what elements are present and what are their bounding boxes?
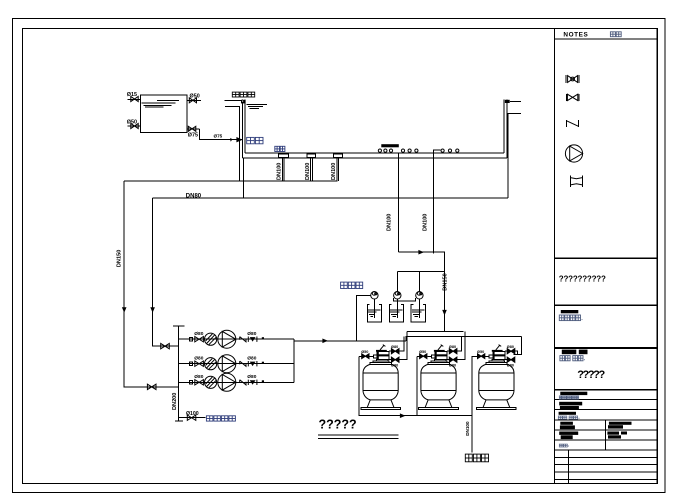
svg-text:DN150: DN150: [443, 273, 449, 290]
municipal water inlet 市政给水: [179, 411, 236, 421]
svg-text:DN100: DN100: [387, 214, 393, 231]
svg-text:Ø80: Ø80: [194, 331, 203, 337]
wire left riser DN150 to pump suction: [116, 181, 178, 389]
pump branch 2 pipe: [179, 363, 294, 365]
svg-text:Ø80: Ø80: [391, 345, 398, 349]
svg-text:DN100: DN100: [331, 163, 337, 180]
svg-text:Ø80: Ø80: [247, 374, 256, 380]
filter F3 backwash valve: [475, 350, 493, 359]
flexible joint branch 1: [189, 338, 192, 341]
svg-text:NOTES: NOTES: [563, 32, 588, 39]
filter F3 inlet valve: [505, 345, 515, 354]
svg-text:?????: ?????: [577, 369, 605, 381]
filter F3 waste pipe: [472, 357, 475, 416]
filter F2 inlet valve: [447, 345, 457, 354]
svg-text:Ø80: Ø80: [247, 331, 256, 337]
swimming pool basin: [232, 92, 509, 158]
valve V1 Ø15 tank inlet: [127, 92, 141, 102]
filter F2 multiport valve: [434, 345, 447, 360]
filter F2 backwash valve: [417, 350, 435, 359]
valve V4 Ø75 tank outlet: [187, 126, 199, 138]
svg-text:Ø75: Ø75: [188, 132, 198, 138]
annotation text: [318, 417, 399, 438]
svg-text:DN100: DN100: [277, 163, 283, 180]
legend gate valve: [566, 94, 578, 101]
pump branch 3 pipe: [179, 381, 294, 383]
circulation pump P3: [218, 373, 236, 391]
svg-text:DN150: DN150: [116, 250, 122, 267]
svg-text:DN100: DN100: [423, 214, 429, 231]
svg-text:?????: ?????: [319, 417, 357, 431]
legend gate valve with flanges: [566, 75, 579, 83]
dosing header pipe: [397, 271, 444, 273]
filter F2 waste pipe: [416, 357, 418, 416]
main drain sumps 主排 with DN100 downpipes: [275, 146, 343, 181]
return risers DN100 and DN150 riser to filters: [387, 150, 449, 332]
pool right overflow stub pipes: [508, 101, 521, 198]
pool drain pipe 泄水口: [225, 101, 244, 198]
legend pump: [565, 145, 582, 162]
wire pipe A main drain header DN150: [124, 180, 338, 182]
svg-text:Ø50: Ø50: [477, 350, 484, 354]
svg-text:Ø50: Ø50: [190, 94, 200, 100]
svg-text:DN200: DN200: [172, 393, 178, 410]
dosing pump 3 feed pipe: [418, 272, 420, 292]
filter feed manifolds: [406, 332, 521, 355]
dosing pump DP1: [371, 292, 378, 299]
flexible joint branch 2: [189, 362, 192, 365]
sand filter battery: [359, 332, 517, 416]
right wall: [503, 99, 505, 152]
pump branch 1 pipe: [179, 338, 294, 340]
svg-text:Ø80: Ø80: [194, 374, 203, 380]
overflow stub pipes (left): [225, 100, 241, 102]
balance water tank: [141, 95, 188, 133]
filter F1 outlet valve: [389, 357, 399, 368]
svg-text:??????????: ??????????: [559, 275, 606, 284]
filter F2 riser pipes: [457, 336, 462, 351]
pool floor return nozzles: [378, 144, 459, 152]
pump suction header DN200: [172, 326, 185, 421]
wire left riser DN80 to pump suction: [150, 198, 178, 349]
svg-text:Ø100: Ø100: [186, 411, 199, 417]
valve V3 Ø50 tank overflow: [187, 94, 201, 103]
svg-text:DN100: DN100: [465, 421, 470, 436]
dosing pump DP2: [394, 292, 401, 299]
dosing pump DP3: [416, 292, 423, 299]
strainer branch 3: [205, 376, 217, 388]
makeup water pipe 补水: [200, 129, 264, 144]
dosing pump 2 feed pipe: [396, 272, 398, 292]
suction valve branch 3: [195, 380, 204, 385]
filter F1 multiport valve: [376, 345, 389, 360]
filter F2 outlet valve: [447, 357, 457, 368]
chemical dosing system 投药泵: [341, 272, 445, 341]
check valve branch 3: [240, 380, 246, 385]
chemical tank 3: [411, 299, 425, 322]
svg-text:Ø80: Ø80: [507, 345, 514, 349]
flexible joint branch 3: [189, 381, 192, 384]
wire pipe B return header DN80: [153, 194, 509, 200]
discharge valve branch 2: [248, 361, 257, 366]
sand filter F1 vessel: [361, 359, 401, 409]
filter F1 backwash valve: [359, 350, 377, 359]
left wall: [241, 99, 243, 158]
circulation pump P1: [218, 330, 236, 348]
circulation pump P2: [218, 355, 236, 373]
filter F3 outlet valve: [505, 357, 515, 368]
discharge valve branch 1: [248, 337, 257, 342]
title block texts and bars: [558, 275, 631, 448]
filter F1 riser pipes: [399, 336, 404, 351]
dosing pump 1 discharge pipe: [356, 295, 370, 341]
svg-text:Ø75: Ø75: [214, 134, 223, 139]
legend flexible coupling: [570, 175, 582, 187]
svg-text:Ø80: Ø80: [247, 356, 256, 362]
backwash drain channel to sump 集水井: [359, 357, 488, 462]
svg-text:Ø50: Ø50: [127, 119, 137, 125]
filter F3 multiport valve: [492, 345, 505, 360]
svg-text:Ø80: Ø80: [391, 364, 398, 368]
dosing suction link pipe: [394, 298, 416, 301]
chemical tank 2: [389, 299, 403, 322]
filter F1 inlet valve: [389, 345, 399, 354]
suction valve branch 1: [195, 337, 204, 342]
strainer branch 1: [205, 333, 217, 345]
discharge valve branch 3: [248, 380, 257, 385]
sand filter F2 vessel: [419, 359, 459, 409]
svg-text:DN80: DN80: [186, 194, 202, 200]
check valve branch 2: [240, 361, 246, 366]
svg-text:Ø80: Ø80: [507, 364, 514, 368]
chemical tank 1: [367, 299, 381, 322]
svg-text:Ø50: Ø50: [361, 350, 368, 354]
pump discharge manifold and main: [294, 339, 406, 383]
strainer branch 2: [205, 358, 217, 370]
svg-text:Ø80: Ø80: [449, 364, 456, 368]
filter F3 riser link: [515, 351, 518, 355]
legend check valve: [567, 120, 579, 127]
title block: [555, 29, 658, 484]
check valve branch 1: [240, 337, 246, 342]
valve V2 Ø50 tank drain: [127, 119, 141, 128]
svg-text:Ø15: Ø15: [127, 92, 137, 98]
suction valve branch 2: [195, 361, 204, 366]
svg-text:Ø80: Ø80: [194, 356, 203, 362]
svg-text:Ø80: Ø80: [449, 345, 456, 349]
sand filter F3 vessel: [477, 359, 517, 409]
filter F1 waste pipe: [358, 357, 360, 416]
svg-text:Ø50: Ø50: [419, 350, 426, 354]
svg-text:DN100: DN100: [305, 163, 311, 180]
pump branches: [179, 330, 294, 391]
water level mark: [247, 104, 268, 106]
bottom: [245, 152, 504, 154]
